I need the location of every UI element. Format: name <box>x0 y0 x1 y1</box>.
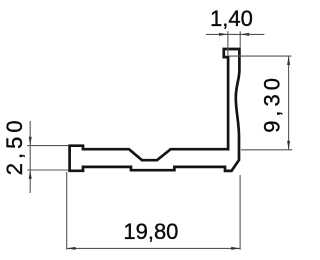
dimension 2,50 : dimension line <box>29 121 31 193</box>
dimension 1,40 : extension line left (x=227.9) <box>227 31 229 56</box>
svg-text:2,50: 2,50 <box>2 116 27 175</box>
dimension 1,40 : dimension line <box>206 33 264 35</box>
dimension 2,50 : extension line bottom (y=170) <box>27 169 68 171</box>
dimension 19,80 : left arrow pointing left <box>67 247 76 250</box>
svg-text:9,30: 9,30 <box>260 74 285 133</box>
dimension 1,40 : left arrow pointing right <box>219 33 228 36</box>
dimension 9,30 : extension line top (y=56.1) <box>229 55 292 57</box>
svg-text:1,40: 1,40 <box>210 6 253 31</box>
dimension 19,80 : extension line right (x=240.1) <box>239 175 241 250</box>
dimension 9,30 : bottom arrow pointing down <box>287 141 290 150</box>
dimension 1,40 : right arrow pointing left <box>240 33 249 36</box>
dimension 1,40 : extension line right (x=240.2) <box>239 31 241 47</box>
dimension 2,50 : top arrow pointing down <box>29 137 32 146</box>
dimension 2,50 : extension line top (y=145.6) <box>27 145 68 147</box>
svg-text:19,80: 19,80 <box>123 219 178 244</box>
dimension 19,80 : right arrow pointing right <box>231 247 240 250</box>
dimension 2,50 : bottom arrow pointing up <box>29 170 32 179</box>
dimension 9,30 : extension line bottom (y=149.8) <box>241 149 292 151</box>
dimension 19,80 : extension line left (x=66.7) <box>66 172 68 250</box>
dimension 9,30 : dimension line <box>288 56 290 150</box>
dimension 9,30 : top arrow pointing up <box>287 56 290 65</box>
dimension 19,80 : dimension line <box>67 247 240 249</box>
profile outline (aluminium profile cross-section) <box>70 49 240 171</box>
